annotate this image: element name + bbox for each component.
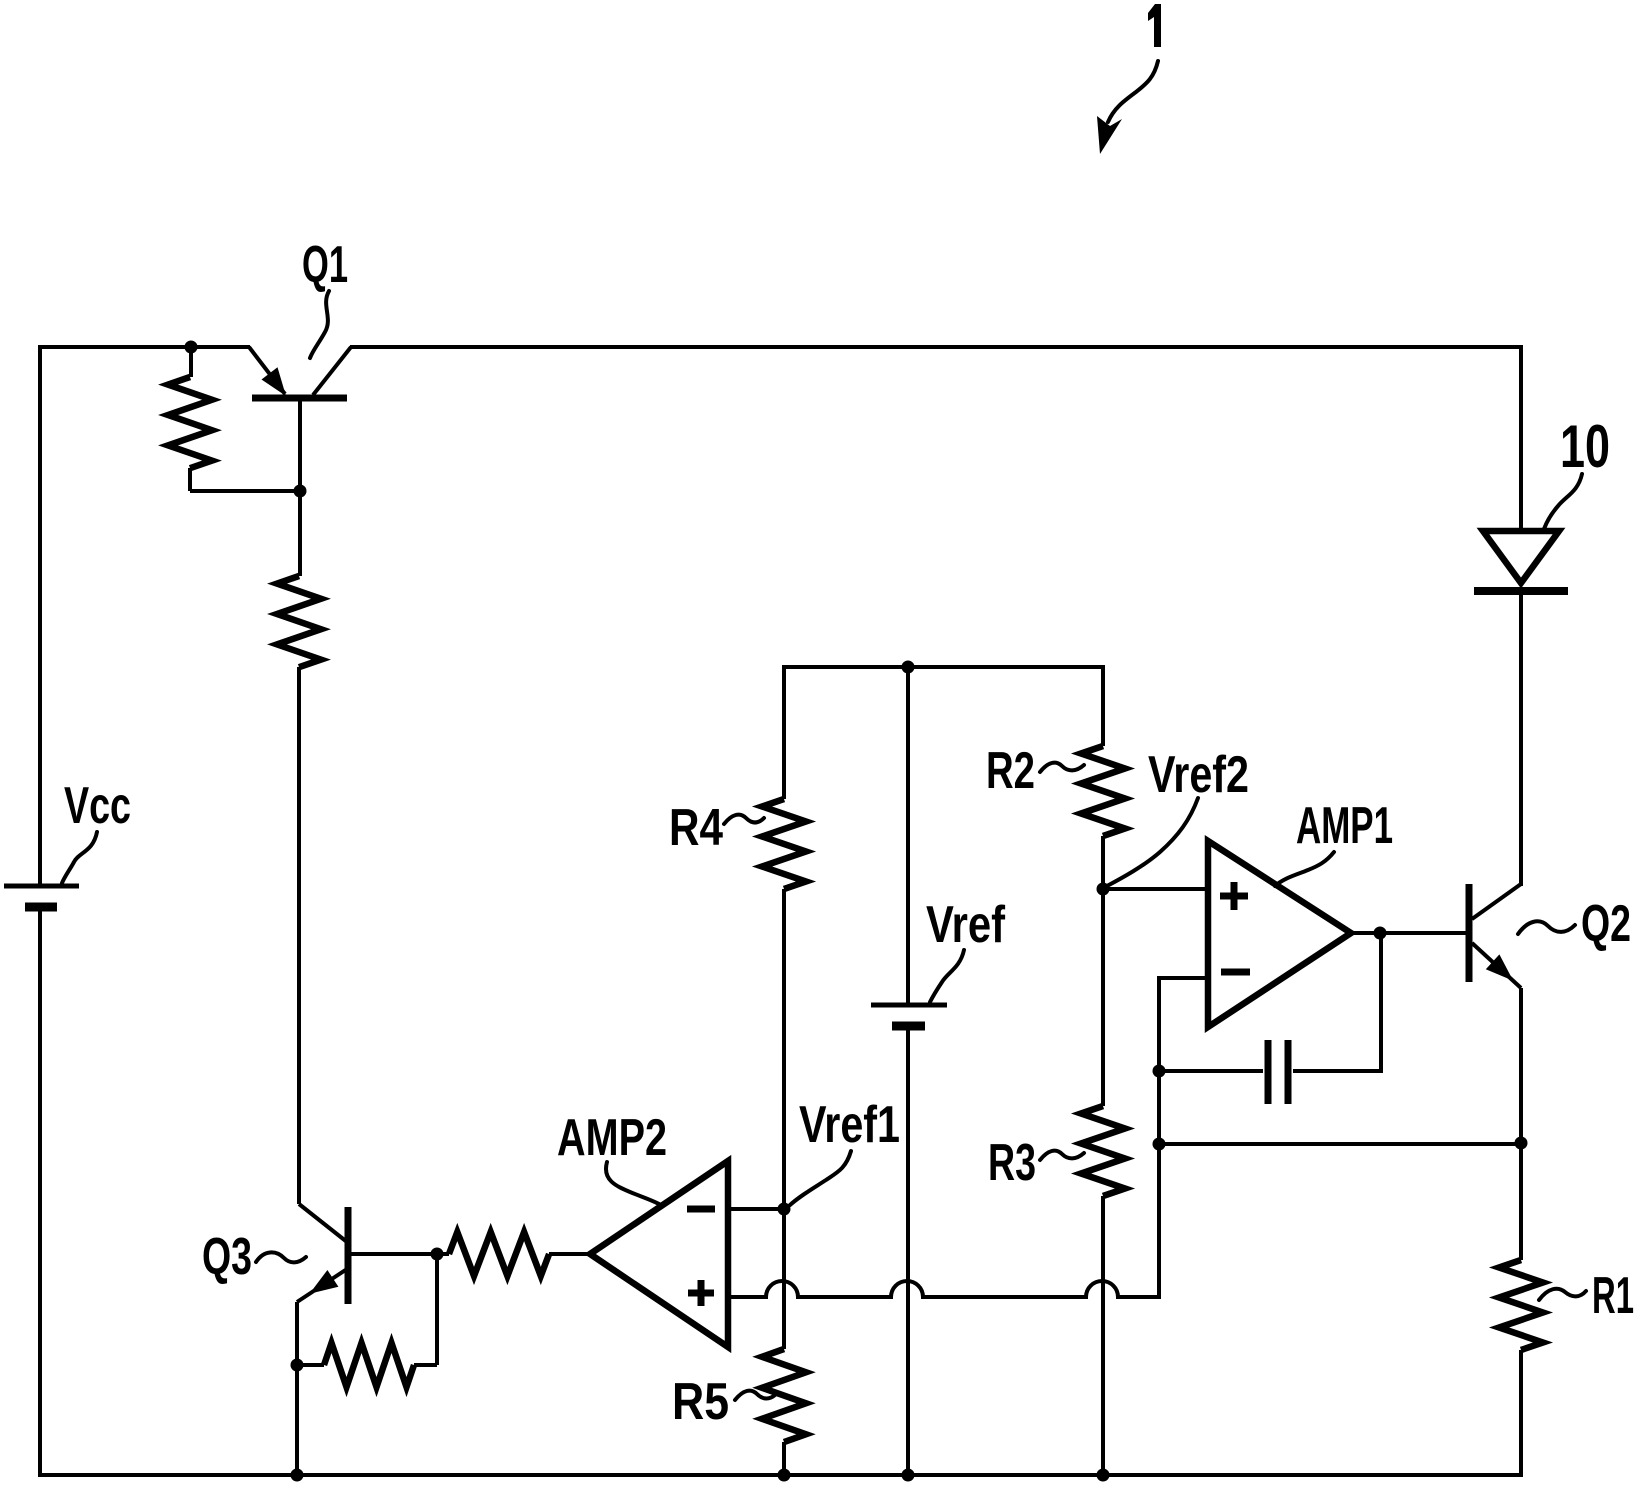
capacitor AMP1 feedback (unlabeled): [1159, 1069, 1263, 1073]
resistor R4: [782, 665, 786, 799]
diode 10 (load): [1483, 531, 1559, 583]
wire top rail left segment: [38, 345, 250, 349]
svg-text:R4: R4: [669, 799, 723, 857]
leader Q3 squiggle: [256, 1252, 306, 1262]
transistor Q1: [252, 395, 347, 402]
leader Q2 squiggle: [1518, 921, 1575, 934]
leader R2 squiggle: [1040, 763, 1084, 772]
node emitter sense tap: [1153, 1138, 1166, 1151]
wire resistor to Q3 base node: [435, 1254, 439, 1365]
wire diode anode from top rail: [1519, 345, 1523, 531]
resistor R5: [782, 1209, 786, 1349]
leader Vref1: [790, 1151, 851, 1205]
svg-text:Vref: Vref: [926, 896, 1006, 954]
leader arrow for label 1: [1108, 61, 1158, 122]
resistor R2: [1101, 665, 1105, 746]
node Vref1 (R4-R5 tap): [778, 1203, 791, 1216]
leader Vref: [930, 950, 964, 1002]
svg-text:AMP2: AMP2: [557, 1109, 667, 1167]
leader AMP2: [606, 1162, 661, 1205]
resistor Q3-base to AMP2 output (unlabeled): [437, 1252, 449, 1256]
battery Vcc plate -: [25, 903, 57, 912]
wire left rail upper: [38, 345, 42, 886]
transistor Q3: [345, 1207, 352, 1304]
svg-text:10: 10: [1560, 413, 1610, 480]
svg-text:AMP1: AMP1: [1296, 797, 1393, 855]
wire AMP2 non-inverting input with hops to sense node: [728, 1150, 1159, 1297]
node Q2 emitter / R1 junction: [1515, 1137, 1528, 1150]
battery Vcc plate +: [4, 884, 79, 889]
wire Q3 emitter down: [295, 1302, 299, 1477]
wire Vref2 node to AMP1 non-inverting input: [1103, 887, 1208, 891]
leader Q1: [310, 291, 329, 358]
svg-text:Vcc: Vcc: [64, 777, 131, 835]
resistor Q1 bias (unlabeled): [189, 347, 193, 377]
svg-text:Vref1: Vref1: [799, 1096, 900, 1154]
leader R3 squiggle: [1040, 1151, 1084, 1160]
op-amp AMP2: [590, 1161, 728, 1347]
node AMP1 output junction: [1374, 927, 1387, 940]
wire Vref battery bottom: [906, 1029, 910, 1477]
node R3 at bottom rail: [1097, 1469, 1110, 1482]
wire bias resistor to Q1 base: [190, 489, 299, 493]
resistor Q1-base to Q3-collector (unlabeled): [298, 491, 302, 576]
leader 10: [1544, 474, 1582, 529]
wire Vref battery top: [906, 667, 910, 1005]
leader R1 squiggle: [1539, 1289, 1586, 1300]
svg-text:Q1: Q1: [302, 236, 348, 294]
wire AMP2 inverting input to Vref1 node: [728, 1207, 784, 1211]
label 1 (figure reference): [1148, 4, 1161, 47]
leader Vref2: [1107, 798, 1198, 886]
node R5 at bottom rail: [778, 1469, 791, 1482]
leader AMP1: [1275, 852, 1334, 886]
wire AMP1 inverting input: [1159, 978, 1208, 1297]
leader R4 squiggle: [724, 815, 764, 824]
node Q3 emitter at bottom rail: [291, 1469, 304, 1482]
node feedback capacitor tap: [1153, 1065, 1166, 1078]
svg-text:R2: R2: [986, 742, 1035, 800]
node Q3 emitter / resistor junction: [291, 1359, 304, 1372]
node top-rail / bias resistor junction: [185, 341, 198, 354]
leader R5 squiggle: [735, 1391, 776, 1400]
wire left rail lower: [38, 908, 42, 1477]
svg-text:Q2: Q2: [1581, 895, 1631, 953]
svg-text:R1: R1: [1592, 1267, 1634, 1325]
wire diode cathode to Q2 collector: [1519, 591, 1523, 886]
svg-text:R3: R3: [988, 1134, 1036, 1192]
wire top divider rail: [784, 665, 1103, 669]
node Vref at bottom rail: [902, 1469, 915, 1482]
wire Q2 emitter down: [1519, 988, 1523, 1260]
svg-text:Q3: Q3: [202, 1228, 252, 1286]
wire bottom rail: [38, 1473, 1521, 1477]
battery Vref plate +: [871, 1003, 947, 1008]
node Vref top junction: [902, 661, 915, 674]
svg-text:Vref2: Vref2: [1148, 746, 1249, 804]
wire top rail right segment: [350, 345, 1521, 349]
svg-text:R5: R5: [672, 1373, 729, 1431]
battery Vref plate -: [892, 1022, 925, 1031]
resistor R1: [1499, 1260, 1543, 1350]
wire AMP1 output: [1351, 931, 1466, 935]
transistor Q2: [1466, 884, 1473, 982]
wire sense node to Q2 emitter / R1 top: [1159, 1142, 1521, 1146]
op-amp AMP1: [1208, 841, 1351, 1027]
resistor R3: [1101, 889, 1105, 1106]
node Vref2 (R2-R3 tap): [1097, 883, 1110, 896]
node Q1 base junction: [294, 485, 307, 498]
node Q3 base junction: [431, 1248, 444, 1261]
resistor Q3 base-emitter (unlabeled): [297, 1363, 324, 1367]
leader Vcc: [62, 832, 97, 883]
